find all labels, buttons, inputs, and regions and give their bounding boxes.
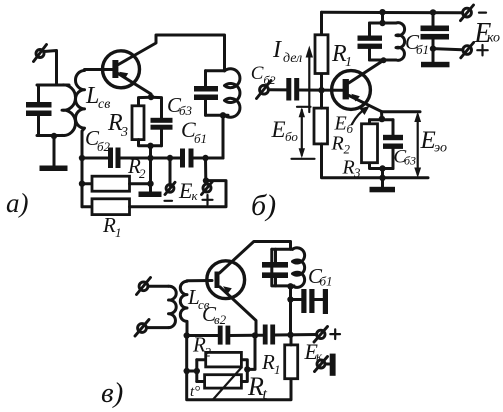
svg-text:ко: ко [487, 31, 500, 46]
svg-text:R: R [331, 133, 344, 155]
svg-text:эо: эо [434, 141, 447, 156]
svg-text:б1: б1 [320, 274, 333, 289]
svg-text:б: б [347, 121, 354, 136]
svg-text:б2: б2 [97, 139, 111, 154]
svg-text:а): а) [6, 188, 29, 218]
svg-text:Е: Е [271, 117, 286, 142]
svg-text:б): б) [251, 189, 276, 222]
svg-text:к: к [192, 188, 199, 203]
svg-text:б1: б1 [416, 42, 429, 57]
svg-text:2: 2 [205, 345, 212, 360]
svg-text:R: R [102, 213, 116, 237]
svg-text:3: 3 [120, 125, 128, 140]
svg-text:бо: бо [285, 129, 298, 144]
svg-text:2: 2 [139, 166, 146, 181]
svg-text:I: I [272, 37, 282, 63]
svg-text:1: 1 [345, 55, 352, 70]
svg-text:С: С [251, 63, 264, 84]
svg-text:R: R [261, 350, 275, 374]
svg-text:дел: дел [283, 51, 302, 66]
svg-text:t: t [263, 386, 268, 403]
svg-text:б3: б3 [179, 103, 193, 118]
svg-text:Е: Е [334, 113, 347, 135]
svg-text:в): в) [101, 377, 123, 409]
svg-text:1: 1 [115, 225, 122, 240]
svg-text:t°: t° [190, 384, 200, 400]
svg-text:3: 3 [353, 165, 361, 180]
svg-text:2: 2 [344, 142, 351, 157]
svg-text:R: R [342, 157, 355, 179]
svg-text:в2: в2 [214, 312, 227, 327]
svg-text:R: R [247, 372, 264, 401]
svg-text:к: к [316, 349, 323, 364]
svg-text:1: 1 [274, 362, 281, 377]
svg-text:б3: б3 [404, 154, 416, 168]
svg-text:б1: б1 [194, 131, 207, 146]
svg-text:б2: б2 [264, 73, 276, 87]
